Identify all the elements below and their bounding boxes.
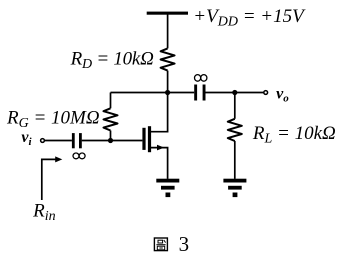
svg-text:3: 3	[179, 232, 190, 256]
svg-text:+VDD = +15V: +VDD = +15V	[193, 6, 306, 30]
